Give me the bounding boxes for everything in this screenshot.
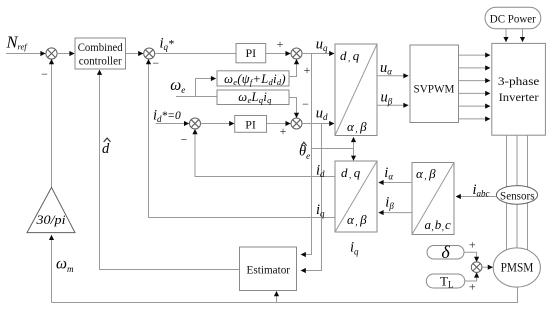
summing junction J6 (471, 262, 482, 273)
block 30/pi gain triangle (27, 187, 75, 232)
svg-text:−: − (41, 67, 48, 81)
wire theta_e to both transforms (312, 148, 354, 150)
svg-text:controller: controller (79, 54, 122, 68)
wire PI1 to J3 (266, 53, 291, 55)
wire gate 3 (459, 80, 491, 82)
wire i_beta (379, 212, 412, 214)
block 3-phase inverter (492, 43, 546, 135)
svg-text:−: − (152, 56, 159, 70)
block DC Power (485, 7, 541, 29)
wire T_L to J6 (465, 273, 477, 281)
wire omega_e feed (176, 79, 217, 97)
svg-text:+: + (469, 280, 476, 294)
wire J4 to PI2 (201, 123, 235, 125)
wire branch to estimator bottom (276, 291, 278, 302)
wire J3 to dq-ab voltage box u_q (302, 53, 334, 55)
hat on d (104, 138, 111, 142)
svg-text:−: − (181, 133, 188, 147)
wire phase line a (506, 135, 508, 250)
wire J5 to dq-ab voltage box u_d (302, 123, 334, 125)
wire J2 to PI1 (155, 53, 236, 55)
wire feedforward2 to J5 (289, 98, 297, 118)
wire i_alpha (379, 182, 412, 184)
block alpha-beta to abc transform (412, 163, 454, 235)
svg-text:+: + (469, 238, 476, 252)
block SVPWM (410, 45, 459, 123)
block delta disturbance (427, 246, 464, 260)
wire omega_m into triangle (51, 235, 53, 302)
summing junction J4 (190, 118, 201, 129)
wire gate 5 (459, 105, 491, 107)
svg-text:SVPWM: SVPWM (414, 82, 455, 96)
wire feedforward1 to J3 (289, 59, 297, 76)
wire J1 to controller (57, 53, 74, 55)
wire N_ref input (6, 53, 45, 55)
wire theta vertical double arrow up (353, 137, 355, 148)
svg-text:PMSM: PMSM (501, 259, 534, 274)
wire bottom speed bus (52, 287, 518, 303)
svg-text:Combined: Combined (78, 40, 123, 54)
svg-text:Inverter: Inverter (499, 90, 539, 104)
block feedforward omega_e L_q i_q (217, 90, 289, 105)
svg-text:3-phase: 3-phase (498, 74, 540, 88)
wire u_alpha (377, 75, 408, 77)
block PI2 (235, 116, 267, 133)
svg-text:−: − (302, 97, 309, 111)
wire gate 4 (459, 92, 491, 94)
wire i_d feedback to J4 (195, 129, 335, 176)
block Sensors (496, 186, 537, 205)
wire theta vertical double arrow down (353, 149, 355, 161)
svg-text:ωeLqiq: ωeLqiq (238, 90, 272, 105)
svg-text:PI: PI (245, 118, 256, 132)
wire phase line b (516, 135, 518, 248)
summing junction J1 (46, 48, 57, 59)
svg-text:+: + (280, 124, 287, 138)
wire J6 to PMSM (482, 266, 493, 268)
svg-text:a,b,c: a,b,c (425, 217, 452, 232)
wire controller to J2 (126, 53, 144, 55)
wire u_d tap down to estimator (301, 124, 322, 271)
block feedforward omega_e(psi_f+L_d i_d) (217, 71, 289, 86)
block Estimator (240, 247, 297, 291)
summing junction J3 (291, 48, 302, 59)
wire i_d* input (156, 123, 189, 125)
wire u_q tap down to estimator (301, 54, 312, 255)
svg-text:d: d (102, 141, 110, 157)
svg-text:Sensors: Sensors (500, 190, 535, 202)
wire SVPWM to inverter gate 1 (459, 54, 491, 56)
hat on theta (301, 142, 306, 145)
wire DC to inverter right (522, 29, 524, 42)
svg-text:+: + (304, 63, 311, 77)
svg-text:DC Power: DC Power (490, 12, 536, 26)
wire i_q feedback to J2 (149, 59, 335, 217)
wire d-hat estimator to controller (100, 70, 240, 270)
summing junction J5 (291, 118, 302, 129)
block T_L load torque (426, 274, 465, 288)
wire delta to J6 (464, 252, 477, 261)
svg-text:δ: δ (441, 242, 450, 262)
wire u_beta (377, 104, 408, 106)
svg-text:Estimator: Estimator (247, 262, 291, 276)
block PMSM (493, 248, 540, 287)
svg-text:30/pi: 30/pi (35, 212, 65, 227)
block Combined controller (75, 38, 126, 69)
wire i_abc to abc transform (456, 196, 497, 198)
wire gate 6 (459, 118, 491, 120)
wire gate 2 (459, 67, 491, 69)
block PI1 (236, 44, 266, 63)
wire PI2 to J5 (267, 123, 291, 125)
wire phase line c (527, 135, 529, 251)
wire DC to inverter left (505, 29, 507, 42)
summing junction J2 (144, 48, 155, 59)
wire speed feedback to J1 (51, 59, 53, 187)
block dq to alpha-beta voltage transform (335, 44, 377, 136)
svg-text:+: + (277, 37, 284, 51)
block alpha-beta to dq current transform (335, 161, 377, 232)
svg-text:PI: PI (245, 46, 256, 60)
